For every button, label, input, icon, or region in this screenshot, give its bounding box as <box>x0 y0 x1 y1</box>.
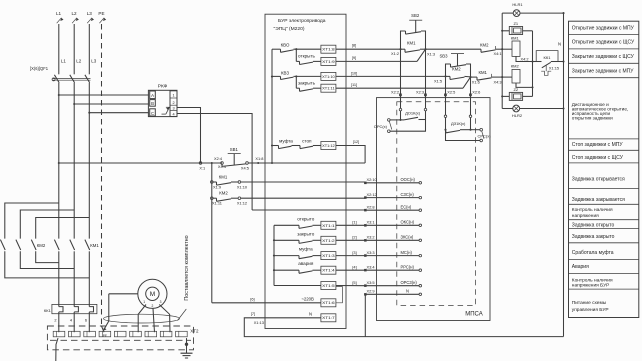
svg-text:2: 2 <box>151 304 153 308</box>
svg-text:[6]: [6] <box>250 297 254 302</box>
svg-text:БУР электропривода: БУР электропривода <box>278 18 326 24</box>
svg-text:[2]: [2] <box>352 235 356 240</box>
terminal XT1:6 <box>321 299 336 307</box>
svg-text:Закрытие задвижки с МПУ: Закрытие задвижки с МПУ <box>572 68 634 74</box>
motor M <box>138 279 167 308</box>
wire KVO to XT1:8 <box>294 48 321 50</box>
terminal XT1:11 <box>321 84 336 92</box>
node tap L1 control <box>58 162 60 164</box>
svg-text:Х2:8: Х2:8 <box>367 204 375 209</box>
signal row Х2:10 <box>364 177 421 184</box>
signal row Х2:9 <box>364 289 421 296</box>
svg-text:ЗКС(н): ЗКС(н) <box>401 235 414 240</box>
svg-text:напряжения: напряжения <box>572 214 599 219</box>
wire motor case PE <box>103 294 138 331</box>
svg-text:ХТ1:3: ХТ1:3 <box>322 254 335 258</box>
svg-text:Контроль наличия: Контроль наличия <box>572 207 613 213</box>
wire motor pin2 <box>153 309 155 333</box>
terminal XT1:10 <box>321 72 336 80</box>
signal row Х3:2 <box>352 235 421 242</box>
svg-text:SB2: SB2 <box>411 13 420 18</box>
wire crossover L1 <box>5 203 59 239</box>
wire N right rail <box>558 12 565 336</box>
pushbutton SB1 <box>221 147 249 170</box>
label MPSA <box>465 312 483 318</box>
svg-text:КМ1: КМ1 <box>407 40 416 45</box>
svg-text:напряжения БУР: напряжения БУР <box>572 283 610 289</box>
svg-text:Х3:3: Х3:3 <box>367 250 375 255</box>
svg-text:2: 2 <box>173 101 175 105</box>
contact DO1K <box>401 111 426 120</box>
suppressor Z2 <box>502 87 532 100</box>
wire [9] row <box>336 49 426 61</box>
wire middle vertical <box>531 31 533 97</box>
label postavlyaetsya komplektno <box>184 235 190 300</box>
label 6 <box>85 318 87 323</box>
svg-text:N: N <box>309 312 312 317</box>
label 4 <box>70 318 73 323</box>
svg-text:ХТ1:2: ХТ1:2 <box>322 239 335 243</box>
terminals XT2 <box>53 331 187 338</box>
wire PE dashed drop <box>102 24 105 332</box>
svg-text:N: N <box>558 42 561 47</box>
svg-text:авария: авария <box>298 261 314 266</box>
svg-text:B: B <box>151 101 154 106</box>
svg-text:СРС(х): СРС(х) <box>478 134 492 139</box>
svg-text:Стоп задвижки с МПУ: Стоп задвижки с МПУ <box>572 142 624 148</box>
svg-text:"ЭПЦ" (М220): "ЭПЦ" (М220) <box>274 26 305 32</box>
wire BUR internal bus lower <box>273 225 275 285</box>
svg-text:A: A <box>151 93 154 98</box>
wire L1 below breaker <box>58 83 60 239</box>
wire [10] row <box>336 70 446 76</box>
wire L3 to RKF C <box>89 112 149 114</box>
legend table <box>569 21 639 317</box>
svg-text:1: 1 <box>143 300 145 304</box>
wire L1 drop to breaker <box>58 24 60 74</box>
wire X2:4 drop <box>211 163 213 303</box>
svg-text:Z2: Z2 <box>513 87 518 92</box>
node PE supply arrow and label <box>98 11 106 23</box>
wire crossback 1 <box>36 251 59 262</box>
svg-text:SB1: SB1 <box>230 147 239 152</box>
svg-text:ХТ1:11: ХТ1:11 <box>322 87 335 91</box>
wire XT1:12 to phase row <box>336 139 365 163</box>
svg-text:ДЗ1К(х): ДЗ1К(х) <box>451 121 466 126</box>
node X1:9 <box>211 181 222 190</box>
svg-text:3: 3 <box>160 300 162 304</box>
wire X2:3 inside <box>390 98 427 132</box>
svg-text:Х4:1: Х4:1 <box>493 51 501 56</box>
svg-text:ХТ1:9: ХТ1:9 <box>322 60 335 64</box>
svg-text:ЕС(н): ЕС(н) <box>401 204 412 209</box>
svg-text:PE: PE <box>103 334 107 338</box>
svg-text:Контроль наличия: Контроль наличия <box>572 278 613 284</box>
node X:1 <box>199 162 205 171</box>
svg-text:4: 4 <box>173 113 175 117</box>
signal row Х3:5 <box>352 280 421 287</box>
svg-text:КМ2: КМ2 <box>37 243 46 248</box>
svg-text:ОРС(х): ОРС(х) <box>374 124 388 129</box>
contact ORS <box>374 119 401 133</box>
svg-text:L3: L3 <box>91 58 97 63</box>
wire RKF pin3 to X:1 <box>177 108 201 164</box>
terminal ХТ1:3 <box>321 252 336 260</box>
svg-text:СЗС(н): СЗС(н) <box>401 192 415 197</box>
contact KM1 interlock <box>471 70 503 80</box>
contact открыто <box>274 216 321 228</box>
svg-text:закрыть: закрыть <box>298 80 316 85</box>
svg-text:МС(н): МС(н) <box>401 250 413 255</box>
svg-text:Х2:12: Х2:12 <box>367 192 377 197</box>
phase monitor relay RKF <box>148 83 177 116</box>
auxiliary contact KM1 <box>213 174 238 185</box>
label 2 <box>54 318 56 323</box>
svg-text:Х3:5: Х3:5 <box>367 280 375 285</box>
svg-text:открытия задвижки: открытия задвижки <box>572 115 613 120</box>
wire motor pin1 <box>138 305 146 333</box>
svg-text:КМ2: КМ2 <box>452 67 461 72</box>
svg-text:открыто: открыто <box>297 216 314 221</box>
node X1:11 <box>211 197 222 206</box>
svg-text:Задвижка открывается: Задвижка открывается <box>572 177 625 183</box>
contact закрыто <box>274 231 321 243</box>
svg-text:Х4:2: Х4:2 <box>521 56 529 61</box>
svg-text:PE: PE <box>98 11 104 16</box>
svg-text:КМ1: КМ1 <box>511 35 520 40</box>
contactor coil KM2 <box>502 64 532 88</box>
svg-text:КМ2: КМ2 <box>480 43 489 48</box>
wire X2:6 inside <box>469 98 472 131</box>
jumper XT1:5 to XT1:6 <box>336 287 343 303</box>
wire KM2 aux to MPSA <box>241 197 366 199</box>
wire L3 below breaker <box>88 83 90 239</box>
contactor coil KM1 <box>502 35 532 61</box>
wire control phase row <box>59 162 222 164</box>
circuit breaker QF1 <box>30 66 90 83</box>
control unit BUR box <box>265 14 346 328</box>
contact KM1 seal-in <box>401 40 426 52</box>
svg-text:SB3: SB3 <box>439 53 448 58</box>
svg-text:[11]: [11] <box>351 82 357 87</box>
svg-text:Х1:5: Х1:5 <box>434 79 442 84</box>
svg-text:[7]: [7] <box>251 311 255 316</box>
node L1 supply arrow and label <box>56 11 64 23</box>
svg-text:Открытие задвижки с МПУ: Открытие задвижки с МПУ <box>572 26 635 32</box>
svg-text:[4]: [4] <box>352 264 356 269</box>
wire SB1 to X1:8 <box>248 162 258 164</box>
terminal XT1:5 <box>321 282 336 290</box>
svg-text:закрыто: закрыто <box>297 231 315 236</box>
svg-text:КК1: КК1 <box>44 308 52 313</box>
cable ellipse <box>104 314 180 323</box>
svg-text:L1: L1 <box>61 58 67 63</box>
svg-text:HLR2: HLR2 <box>512 113 523 118</box>
lamp HLR1 <box>502 2 563 17</box>
label L1 wire <box>61 58 67 63</box>
thermal overload KK1 <box>44 304 97 313</box>
svg-text:Х1:8: Х1:8 <box>255 156 263 161</box>
svg-text:Х1:13: Х1:13 <box>254 320 264 325</box>
svg-text:Х1:10: Х1:10 <box>237 184 248 189</box>
svg-text:ХТ1:8: ХТ1:8 <box>322 48 335 52</box>
svg-text:Х4:5: Х4:5 <box>241 165 249 170</box>
node X1:10 <box>237 181 248 190</box>
svg-text:Закрытие задвижки с ЩСУ: Закрытие задвижки с ЩСУ <box>572 54 635 60</box>
svg-text:ОКС(н): ОКС(н) <box>401 220 415 225</box>
node tap L3-C <box>88 112 90 114</box>
signal row Х3:1 <box>352 220 421 227</box>
svg-text:ХТ1:1: ХТ1:1 <box>322 224 335 228</box>
svg-text:ХТ1:6: ХТ1:6 <box>322 301 335 305</box>
svg-text:Х3:1: Х3:1 <box>367 220 375 225</box>
svg-text:КМ1: КМ1 <box>478 70 487 75</box>
MPSA cabinet box <box>377 98 491 321</box>
svg-text:[3]: [3] <box>352 250 356 255</box>
terminal XT1:12 <box>321 142 336 150</box>
limit switch KVZ <box>272 70 294 79</box>
svg-text:Х4:3: Х4:3 <box>493 79 501 84</box>
svg-text:КМ1: КМ1 <box>90 243 99 248</box>
terminal XT1:8 <box>321 45 336 53</box>
svg-text:ХТ1:4: ХТ1:4 <box>322 269 335 273</box>
wire crossback 2 <box>20 251 74 268</box>
svg-text:N: N <box>406 289 409 294</box>
svg-text:[Х(6)]QF1: [Х(6)]QF1 <box>30 66 49 71</box>
svg-text:Авария: Авария <box>572 264 589 270</box>
wire motor feed 3 <box>88 251 90 332</box>
wire ES row <box>252 209 365 211</box>
terminal ХТ1:4 <box>321 266 336 274</box>
label L2 wire <box>76 58 82 63</box>
terminal XT1:7 <box>321 314 336 322</box>
svg-text:муфта: муфта <box>279 139 293 144</box>
svg-text:L3: L3 <box>87 11 93 16</box>
svg-text:Х3:4: Х3:4 <box>367 264 376 269</box>
terminal ХТ1:2 <box>321 236 336 244</box>
svg-text:Поставляется комплектно: Поставляется комплектно <box>184 235 190 300</box>
wire X2:5 drop <box>444 76 455 97</box>
svg-text:1: 1 <box>173 93 175 97</box>
svg-text:Задвижка открыто: Задвижка открыто <box>572 222 615 228</box>
svg-text:ХТ1:5: ХТ1:5 <box>322 284 335 288</box>
svg-text:~220В: ~220В <box>301 296 314 301</box>
svg-text:Х:1: Х:1 <box>199 165 205 170</box>
contactor KM2 main contacts <box>0 240 45 250</box>
label L3 wire <box>91 58 97 63</box>
svg-text:Питание схемы: Питание схемы <box>572 300 607 306</box>
svg-text:L2: L2 <box>76 58 82 63</box>
svg-text:[10]: [10] <box>351 70 358 75</box>
wire BUR internal bus upper <box>271 49 273 164</box>
svg-text:L1: L1 <box>56 11 62 16</box>
node X1:3 <box>424 48 435 56</box>
contactor KM1 main contacts <box>54 240 99 250</box>
wire XT1:5 jog up <box>336 285 365 287</box>
svg-text:М: М <box>150 291 155 298</box>
wire X2:2 inside <box>399 98 402 121</box>
wire crossover L2 <box>20 210 74 239</box>
contact авария <box>274 261 321 273</box>
wire X2:5 inside <box>444 98 480 141</box>
node X4:3 <box>493 76 503 84</box>
svg-text:Z1: Z1 <box>513 21 518 26</box>
wire X2:3 drop <box>416 49 427 97</box>
terminal XT1:9 <box>321 57 336 65</box>
svg-text:КВО: КВО <box>281 42 290 47</box>
contact SRS <box>471 128 492 141</box>
svg-text:муфта: муфта <box>299 247 313 252</box>
svg-text:4: 4 <box>70 318 73 323</box>
svg-text:Х2:5: Х2:5 <box>447 89 455 94</box>
wire L1 to RKF A <box>59 94 149 96</box>
node KVO out <box>295 48 297 50</box>
svg-text:[1]: [1] <box>352 220 356 225</box>
wire X2:6 drop <box>469 77 480 98</box>
svg-text:РРС(н): РРС(н) <box>401 264 415 269</box>
wire motor feed 2 <box>73 251 75 332</box>
svg-text:[9]: [9] <box>352 55 356 60</box>
wire motor feed 1 <box>58 251 60 332</box>
wire XT1:1 to X3:1 <box>336 224 365 226</box>
wire left vertical <box>501 13 503 108</box>
svg-text:Х1:2: Х1:2 <box>391 51 399 56</box>
lamp HLR2 <box>502 105 563 118</box>
wire crossover L3 <box>36 218 90 239</box>
limit switch KVO <box>272 42 294 52</box>
wire X1:8 into BUR <box>258 162 365 164</box>
thermal relay KK1 <box>533 51 564 76</box>
ground symbol <box>181 338 193 358</box>
svg-text:Х2:10: Х2:10 <box>367 177 378 182</box>
svg-text:Х1:12: Х1:12 <box>237 201 247 206</box>
svg-text:Задвижка закрыто: Задвижка закрыто <box>572 234 615 240</box>
signal row Х3:4 <box>352 264 421 271</box>
contact KM2 interlock <box>426 43 503 53</box>
svg-text:КМ2: КМ2 <box>219 191 228 196</box>
MPSA dashed box <box>397 102 476 306</box>
contact муфта <box>274 247 321 259</box>
terminal strip XT2 dashed box <box>47 326 199 350</box>
svg-text:ХТ1:12: ХТ1:12 <box>322 144 335 148</box>
svg-text:2: 2 <box>54 318 56 323</box>
svg-text:ХТ1:10: ХТ1:10 <box>322 75 335 79</box>
svg-text:Сработала муфта: Сработала муфта <box>572 250 614 256</box>
svg-text:3: 3 <box>173 107 175 111</box>
terminal ХТ1:1 <box>321 221 336 229</box>
svg-text:Х2:3: Х2:3 <box>416 89 424 94</box>
contact mufta <box>272 139 293 149</box>
svg-text:Х1:3: Х1:3 <box>427 52 435 57</box>
wire L2 to RKF B <box>74 103 149 105</box>
svg-text:Х2:2: Х2:2 <box>391 89 399 94</box>
node X4:1 <box>493 48 503 56</box>
wire XT1:3 to X3:3 <box>336 255 365 257</box>
node L3 supply arrow and label <box>87 11 94 23</box>
wire [11] row <box>336 77 471 88</box>
svg-text:ХТ1:7: ХТ1:7 <box>322 316 335 320</box>
pushbutton SB3 <box>439 53 470 77</box>
node X2:4 <box>211 156 227 169</box>
node X1:8 <box>255 156 263 164</box>
pushbutton SB2 <box>401 13 426 49</box>
svg-text:ОРСЗ(н): ОРСЗ(н) <box>401 280 418 285</box>
wire XT1:4 to X3:4 <box>336 269 365 271</box>
svg-text:Х2:6: Х2:6 <box>472 89 480 94</box>
svg-text:КМ2: КМ2 <box>511 64 520 69</box>
wire X2:9 drop to N rail <box>364 294 366 336</box>
leader line <box>178 309 187 321</box>
svg-text:Задвижка закрывается: Задвижка закрывается <box>572 197 625 203</box>
svg-text:6: 6 <box>85 318 87 323</box>
contact KM2 seal-in <box>446 67 471 80</box>
node X1:12 <box>237 197 247 206</box>
wire below t1 <box>56 338 58 361</box>
svg-text:КМ1: КМ1 <box>219 174 228 179</box>
svg-text:[8]: [8] <box>352 42 356 47</box>
node X1:6 <box>469 76 479 84</box>
wire KVZ to XT1:10 <box>294 75 321 77</box>
contact stop <box>292 139 321 149</box>
svg-text:КК1: КК1 <box>544 55 552 60</box>
node tap L1-A <box>58 94 60 96</box>
svg-text:Х2:9: Х2:9 <box>367 289 375 294</box>
svg-text:открыть: открыть <box>298 54 316 59</box>
auxiliary contact KM2 <box>213 191 238 202</box>
svg-text:РКФ: РКФ <box>158 83 168 89</box>
svg-text:Стоп задвижки с ЩСУ: Стоп задвижки с ЩСУ <box>572 155 624 161</box>
signal row Х2:12 <box>364 192 421 199</box>
svg-text:Х1:15: Х1:15 <box>549 66 559 71</box>
XT2 inner dashed line <box>50 339 191 341</box>
svg-text:Х3:2: Х3:2 <box>367 235 375 240</box>
signal row Х3:3 <box>352 250 421 257</box>
node KVZ out <box>295 75 297 77</box>
node X1:2 <box>391 48 402 56</box>
svg-text:L2: L2 <box>71 11 77 16</box>
wire L2 drop to breaker <box>73 24 75 74</box>
svg-text:[5]: [5] <box>352 280 356 285</box>
node tap L2-B <box>73 103 75 105</box>
wire N feed <box>244 311 563 337</box>
wire L3 drop to breaker <box>88 24 90 74</box>
svg-text:МПСА: МПСА <box>465 312 483 318</box>
wire RKF pin4 to ES row <box>177 114 252 211</box>
suppressor Z1 <box>502 21 532 34</box>
contact DZ1K <box>446 121 471 133</box>
wire XT1:2 to X3:2 <box>336 239 365 241</box>
wire KM1 aux to MPSA <box>241 181 366 183</box>
wire 220V feed <box>212 296 321 303</box>
wire crossback 3 <box>5 251 90 278</box>
wire [8] row <box>336 42 401 49</box>
svg-text:КВЗ: КВЗ <box>281 70 289 75</box>
svg-text:[12]: [12] <box>353 139 360 144</box>
svg-text:HLR1: HLR1 <box>512 2 523 7</box>
node L2 supply arrow and label <box>71 11 78 23</box>
svg-text:ДО1К(х): ДО1К(х) <box>405 111 421 116</box>
svg-text:ХТ2: ХТ2 <box>190 329 199 334</box>
svg-text:управления БУР: управления БУР <box>572 307 609 313</box>
wire X2:2 drop <box>391 49 402 97</box>
node X1:5 <box>434 75 447 83</box>
wire bus to XT1:5 <box>274 285 321 287</box>
svg-text:Открытие задвижки с ЩСУ: Открытие задвижки с ЩСУ <box>572 40 635 46</box>
contact zakryt <box>296 76 321 91</box>
svg-text:Х2:4: Х2:4 <box>214 156 223 161</box>
label BUR title <box>274 18 326 32</box>
wire motor pin3 <box>159 305 170 333</box>
